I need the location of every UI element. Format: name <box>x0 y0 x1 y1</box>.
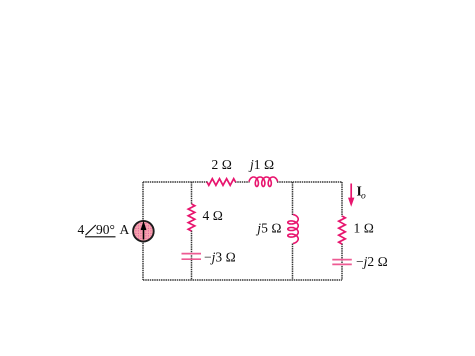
svg-text:90°: 90° <box>96 222 115 237</box>
svg-text:−j3 Ω: −j3 Ω <box>204 250 236 265</box>
wire top horizontal left segment <box>143 181 208 183</box>
svg-text:o: o <box>361 192 366 202</box>
angle symbol <box>85 225 116 237</box>
svg-text:1 Ω: 1 Ω <box>354 220 375 235</box>
inductor j1 <box>249 177 278 186</box>
wire branch 4ohm vertical <box>191 182 193 205</box>
wire top horizontal right segment <box>277 181 342 183</box>
svg-text:j1 Ω: j1 Ω <box>248 157 274 172</box>
capacitor -j2 <box>332 260 352 265</box>
wire branch j5 bottom segment <box>292 244 294 281</box>
svg-text:4: 4 <box>78 222 85 237</box>
wire right vertical lower segment <box>341 244 343 281</box>
current source circle <box>133 221 154 242</box>
wire left vertical <box>142 182 144 280</box>
wire branch j5 top segment <box>292 182 294 215</box>
wire bottom horizontal <box>143 279 342 281</box>
current Io arrow <box>348 184 354 207</box>
resistor 4ohm <box>188 204 195 231</box>
svg-text:−j2 Ω: −j2 Ω <box>356 254 388 269</box>
wire top horizontal middle segment <box>235 181 250 183</box>
svg-text:A: A <box>120 222 130 237</box>
svg-text:j5 Ω: j5 Ω <box>255 221 281 236</box>
wire right vertical <box>341 182 343 217</box>
current source arrow <box>141 221 147 240</box>
svg-text:2 Ω: 2 Ω <box>212 157 233 172</box>
resistor 2ohm <box>207 179 236 186</box>
resistor 1ohm <box>339 216 346 244</box>
inductor j5 <box>288 215 298 244</box>
svg-text:4 Ω: 4 Ω <box>203 208 224 223</box>
wire branch 4ohm lower segment <box>191 231 193 281</box>
capacitor -j3 <box>182 254 202 260</box>
